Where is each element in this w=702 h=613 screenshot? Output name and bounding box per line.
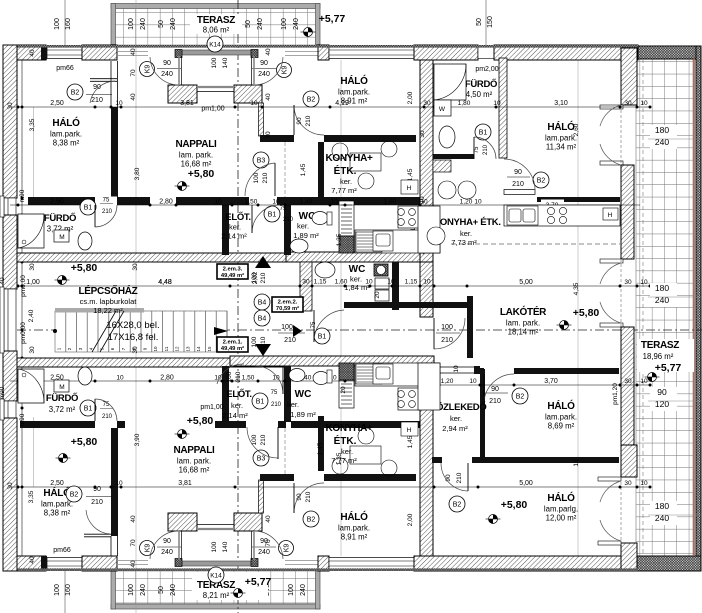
left wall outer sill boxes: [0, 196, 4, 217]
window top W2: [329, 47, 414, 59]
svg-text:70: 70: [130, 69, 137, 77]
svg-text:100: 100: [128, 18, 135, 30]
bottom terrace parapet left: [111, 571, 116, 609]
svg-text:lam.park.: lam.park.: [50, 130, 82, 139]
toilet core wc dark: [374, 264, 388, 276]
top terrace parapet left: [111, 4, 116, 45]
svg-text:240: 240: [170, 18, 177, 30]
svg-text:4,35: 4,35: [573, 282, 580, 295]
svg-text:LÉPCSŐHÁZ: LÉPCSŐHÁZ: [79, 284, 138, 297]
svg-text:210: 210: [284, 337, 296, 344]
svg-text:8,91 m²: 8,91 m²: [341, 97, 368, 106]
door B2 konyha lower: [303, 511, 319, 527]
svg-text:1,89 m²: 1,89 m²: [290, 410, 316, 419]
kitchen zone dashed upper: [284, 142, 286, 197]
door B1 furdo right: [475, 124, 491, 140]
wall halo869 bottom: [432, 457, 442, 463]
pier nappali top-left: [168, 85, 197, 103]
svg-text:240: 240: [655, 513, 669, 523]
svg-text:50: 50: [158, 586, 165, 594]
svg-text:240: 240: [258, 71, 270, 78]
washbasin upper-left: [78, 232, 92, 250]
unit box 2.em.2: [272, 297, 303, 312]
axis vertical x486 top: [485, 0, 487, 47]
door B1 wc core: [314, 328, 330, 344]
svg-text:WC: WC: [295, 389, 312, 400]
svg-text:5,00: 5,00: [519, 279, 533, 286]
door B2 kozlekedo: [449, 496, 465, 512]
svg-text:75: 75: [103, 198, 110, 204]
svg-text:11: 11: [164, 346, 169, 351]
svg-text:m90: m90: [0, 386, 6, 399]
svg-text:1,40: 1,40: [300, 199, 313, 206]
exterior wall bottom seg A: [10, 556, 46, 571]
svg-text:K9: K9: [144, 544, 151, 553]
right terrace tile floor: [636, 58, 693, 556]
svg-text:240: 240: [300, 584, 307, 596]
wall apt-divider vertical core: [420, 262, 433, 317]
svg-text:ker.: ker.: [340, 177, 352, 186]
room label TERASZ top: [190, 14, 242, 34]
svg-text:140: 140: [222, 57, 229, 68]
axis vertical x578: [577, 60, 579, 556]
svg-text:210: 210: [235, 371, 242, 382]
svg-text:TERASZ: TERASZ: [641, 340, 679, 351]
svg-text:B2: B2: [453, 501, 462, 508]
svg-text:30: 30: [624, 480, 632, 487]
svg-text:2,40: 2,40: [28, 309, 35, 322]
svg-text:lam.parlg.: lam.parlg.: [544, 505, 578, 514]
svg-text:210: 210: [271, 402, 282, 408]
svg-text:100: 100: [251, 272, 258, 283]
svg-text:40: 40: [265, 93, 272, 101]
wall halo right lower-left: [111, 428, 118, 536]
svg-text:ELŐT.: ELŐT.: [226, 388, 251, 400]
svg-text:10: 10: [115, 100, 123, 107]
svg-text:240: 240: [140, 584, 147, 596]
svg-text:H: H: [407, 185, 412, 192]
svg-text:75: 75: [103, 402, 110, 408]
wall halo1134/konyha: [537, 197, 620, 202]
door K9 top-right: [277, 63, 292, 78]
axis horizontal y330 dash-dot: [0, 329, 702, 331]
door K14 bottom: [208, 567, 224, 583]
svg-text:pm0,00: pm0,00: [20, 275, 27, 297]
kitchen counter upper apt1: [355, 230, 440, 253]
svg-text:4,50 m²: 4,50 m²: [466, 90, 493, 99]
balcony french door lower: [600, 481, 621, 502]
door jamb bottom-left: [175, 559, 182, 567]
exterior wall top seg E: [494, 45, 638, 60]
dimension line y286: [18, 285, 650, 287]
svg-text:pm0,00: pm0,00: [20, 322, 27, 344]
svg-text:50: 50: [158, 20, 165, 28]
svg-text:B4: B4: [258, 299, 267, 306]
passage elot-kozlekedo: [434, 366, 478, 368]
svg-text:KONYHA+ ÉTK.: KONYHA+ ÉTK.: [433, 217, 500, 228]
svg-text:B2: B2: [516, 393, 525, 400]
svg-text:210: 210: [260, 336, 267, 347]
svg-text:100: 100: [251, 336, 258, 347]
kitchen table upper apt1: [350, 153, 381, 171]
svg-text:lam.park.: lam.park.: [41, 500, 73, 509]
svg-text:2.em.3.: 2.em.3.: [223, 267, 243, 273]
exterior wall bottom corner E: [621, 543, 637, 571]
wall apt-divider vertical upper: [420, 60, 433, 262]
balcony french door upper: [600, 105, 621, 126]
svg-text:TERASZ: TERASZ: [197, 15, 235, 26]
svg-text:K9: K9: [283, 544, 290, 553]
svg-text:100: 100: [441, 324, 453, 331]
svg-text:90: 90: [93, 486, 101, 493]
svg-text:10: 10: [153, 346, 158, 352]
svg-text:2,50: 2,50: [50, 199, 64, 206]
svg-text:30: 30: [624, 378, 632, 385]
svg-text:2,00: 2,00: [407, 91, 414, 104]
svg-text:pm1,00: pm1,00: [200, 404, 223, 411]
exterior wall right seg4: [621, 445, 637, 477]
window top W3: [478, 47, 494, 59]
svg-text:10: 10: [419, 196, 426, 204]
svg-text:13: 13: [185, 346, 190, 352]
svg-text:210: 210: [489, 398, 501, 405]
svg-text:10: 10: [640, 480, 648, 487]
svg-text:3,10: 3,10: [554, 100, 568, 107]
svg-text:2.em.2.: 2.em.2.: [278, 300, 298, 306]
svg-text:210: 210: [260, 434, 267, 445]
svg-text:ker.: ker.: [229, 223, 241, 232]
svg-text:100: 100: [211, 541, 218, 552]
svg-text:240: 240: [161, 71, 173, 78]
svg-text:49,49 m²: 49,49 m²: [221, 272, 244, 279]
door B2 halo bottom-left: [66, 486, 82, 502]
axis vertical x341: [340, 60, 342, 556]
svg-text:8,69 m²: 8,69 m²: [548, 422, 575, 431]
svg-text:3,80: 3,80: [134, 167, 141, 180]
svg-text:ker.: ker.: [297, 222, 309, 231]
svg-text:180: 180: [655, 501, 669, 511]
dining table right apt: [438, 181, 456, 199]
svg-text:10: 10: [453, 365, 460, 373]
svg-text:10: 10: [493, 100, 501, 107]
svg-text:1,35: 1,35: [336, 233, 343, 246]
svg-text:+5,80: +5,80: [188, 168, 215, 180]
shaft dark upper: [339, 236, 354, 253]
pier window lines bottom: [197, 528, 234, 530]
wall halo closet lower-left: [110, 536, 112, 556]
svg-text:210: 210: [260, 272, 267, 283]
svg-text:K9: K9: [281, 66, 288, 75]
svg-text:HÁLÓ: HÁLÓ: [547, 491, 575, 504]
svg-text:+5,80: +5,80: [501, 499, 528, 511]
svg-text:100: 100: [281, 18, 288, 30]
svg-text:160: 160: [65, 584, 72, 596]
svg-text:240: 240: [170, 584, 177, 596]
svg-text:M: M: [59, 384, 64, 391]
svg-text:8,21 m²: 8,21 m²: [203, 591, 230, 600]
svg-text:20: 20: [340, 386, 347, 394]
balcony opening lakoter: [600, 259, 623, 263]
svg-text:90: 90: [657, 387, 667, 397]
svg-text:7,77 m²: 7,77 m²: [331, 456, 357, 465]
svg-text:NAPPALI: NAPPALI: [173, 445, 215, 456]
right terrace waterproof line: [693, 58, 695, 556]
svg-text:14: 14: [196, 346, 201, 352]
svg-text:8,06 m²: 8,06 m²: [203, 26, 230, 35]
svg-text:HÁLÓ: HÁLÓ: [547, 120, 575, 133]
svg-text:ker.: ker.: [287, 400, 299, 409]
pier nappali bottom-right: [234, 513, 262, 531]
svg-text:B1: B1: [256, 398, 265, 405]
washbasin right apt: [439, 126, 455, 148]
svg-text:70: 70: [265, 131, 272, 139]
exterior wall right seg3: [621, 327, 634, 445]
svg-text:3,35: 3,35: [29, 118, 36, 131]
door B1 elot upper: [264, 206, 280, 222]
terrace front sill top: [117, 51, 148, 53]
svg-text:30: 30: [624, 279, 632, 286]
svg-text:30: 30: [29, 263, 36, 271]
svg-text:2,14 m²: 2,14 m²: [221, 232, 247, 241]
svg-text:3,81: 3,81: [180, 100, 194, 107]
svg-text:m90: m90: [19, 189, 26, 202]
exterior wall bottom seg B: [82, 556, 117, 571]
M box lower-left: [54, 380, 69, 392]
stairs treads: [55, 311, 227, 352]
svg-text:1,84 m²: 1,84 m²: [344, 283, 370, 292]
M box upper-left: [54, 230, 69, 242]
svg-text:10: 10: [272, 199, 280, 206]
door jamb top-left: [175, 50, 182, 58]
dimension line y107: [10, 106, 650, 108]
svg-text:100: 100: [226, 371, 233, 382]
svg-text:2,80: 2,80: [160, 375, 174, 382]
wall wc/konyha bottom: [291, 421, 430, 428]
wall wc shaft strip upper: [339, 201, 354, 236]
exterior wall right seg2: [621, 165, 634, 259]
svg-text:pm66: pm66: [53, 547, 71, 554]
left dim chain: [21, 60, 23, 556]
svg-text:10: 10: [250, 100, 258, 107]
svg-text:210: 210: [91, 499, 103, 506]
wall konyha bottom-left segs: [20, 421, 95, 428]
svg-text:B2: B2: [307, 96, 316, 103]
svg-text:240: 240: [655, 295, 669, 305]
svg-text:2,94 m²: 2,94 m²: [442, 424, 468, 433]
svg-text:M: M: [59, 234, 64, 241]
shaft dark lower: [339, 363, 354, 380]
wall furdo bottom right apt: [433, 154, 474, 159]
svg-text:18,14 m²: 18,14 m²: [508, 328, 539, 337]
window bottom W2: [329, 558, 414, 570]
kitchen counter lower apt1: [355, 363, 440, 386]
pier window lines top: [197, 86, 234, 88]
svg-text:+5,77: +5,77: [655, 362, 682, 374]
svg-text:100: 100: [128, 584, 135, 596]
wall service top mid: [176, 197, 249, 205]
svg-text:11,34 m²: 11,34 m²: [546, 143, 577, 152]
svg-text:1,45: 1,45: [317, 442, 324, 455]
svg-text:B4: B4: [258, 315, 267, 322]
door B4 upper arrow: [255, 256, 271, 268]
svg-text:7,77 m²: 7,77 m²: [331, 186, 357, 195]
door gap halo891 upper: [294, 135, 324, 143]
svg-text:210: 210: [456, 472, 463, 483]
room label TERASZ bottom: [192, 572, 268, 600]
axis vertical x136: [135, 0, 137, 613]
svg-text:2,00: 2,00: [407, 513, 414, 526]
svg-text:210: 210: [483, 144, 489, 155]
wall step shaft right apt: [433, 160, 451, 172]
svg-text:30: 30: [624, 100, 632, 107]
dim chain x33: [33, 107, 35, 197]
svg-text:30: 30: [7, 102, 14, 110]
axis vertical x65: [64, 0, 66, 46]
svg-text:240: 240: [293, 18, 300, 30]
svg-text:10: 10: [474, 199, 482, 206]
wall halo869 left: [480, 369, 485, 463]
svg-text:2,50: 2,50: [50, 480, 64, 487]
svg-text:lam. park.: lam. park.: [179, 151, 213, 160]
svg-text:100: 100: [281, 324, 293, 331]
svg-text:100: 100: [211, 57, 218, 68]
shaft core boxes: [375, 278, 389, 289]
svg-text:1,20: 1,20: [460, 199, 473, 206]
svg-text:90: 90: [93, 84, 101, 91]
svg-text:90: 90: [163, 60, 171, 67]
svg-text:90: 90: [445, 474, 452, 482]
wall elot/wc lower: [284, 366, 291, 422]
svg-text:240: 240: [257, 18, 264, 30]
svg-text:B1: B1: [268, 211, 277, 218]
washbasin wc lower: [289, 369, 305, 382]
svg-text:ÉTK.: ÉTK.: [334, 434, 357, 447]
wall service top right: [277, 197, 430, 205]
window K14 top: [182, 50, 251, 55]
door gap halo891 lower: [294, 474, 324, 482]
door B3 lower: [253, 450, 269, 466]
svg-text:+5,80: +5,80: [71, 262, 98, 274]
axis vertical x238 dash-dot: [237, 0, 239, 613]
top terrace parapet top: [111, 4, 320, 9]
svg-text:90: 90: [491, 386, 499, 393]
door B2 konyha upper: [303, 91, 319, 107]
svg-text:90: 90: [163, 538, 171, 545]
svg-text:10: 10: [387, 279, 395, 286]
svg-text:180: 180: [655, 125, 669, 135]
top terrace tile floor: [112, 8, 318, 45]
shower right apt: [434, 64, 466, 100]
svg-text:B1: B1: [479, 129, 488, 136]
dimension line y205: [10, 204, 640, 206]
svg-text:+5,77: +5,77: [245, 576, 272, 588]
svg-text:90: 90: [260, 60, 268, 67]
window left LW3: [4, 401, 16, 418]
svg-text:30: 30: [29, 346, 36, 354]
dimension line y381: [10, 380, 434, 382]
door K9 bottom-left: [140, 541, 155, 556]
terrace front dashed top: [112, 46, 320, 48]
door B2 halo1134: [533, 172, 549, 188]
exterior wall bottom seg D: [414, 556, 621, 571]
svg-text:+5,80: +5,80: [71, 436, 98, 448]
door B1 furdo upper-left: [95, 197, 117, 206]
wall halo right upper-left: [111, 107, 118, 198]
dimension line y385: [420, 384, 650, 386]
top terrace parapet right: [316, 4, 321, 45]
svg-text:40: 40: [0, 277, 6, 285]
svg-text:210: 210: [102, 414, 113, 420]
shower upper-left: [18, 214, 44, 248]
svg-text:FÜRDŐ: FÜRDŐ: [465, 78, 497, 90]
exterior wall top seg D: [414, 45, 478, 60]
wall wc shaft strip lower: [339, 380, 354, 408]
svg-text:1,45: 1,45: [407, 168, 414, 181]
door gap halo869: [484, 368, 514, 375]
exterior wall top seg A: [10, 45, 46, 60]
svg-text:240: 240: [655, 137, 669, 147]
svg-text:30: 30: [419, 130, 426, 138]
svg-text:B2: B2: [70, 491, 79, 498]
toilet wc lower: [313, 372, 329, 385]
window left LW1: [4, 198, 16, 215]
washbasin wc upper: [290, 239, 308, 253]
svg-text:10: 10: [115, 480, 123, 487]
door K9 bottom-right: [279, 541, 294, 556]
svg-text:pm1,20: pm1,20: [612, 383, 619, 405]
exterior wall left lower: [3, 418, 17, 571]
svg-text:lam.park.: lam.park.: [338, 88, 370, 97]
svg-text:lam. park.: lam. park.: [177, 457, 211, 466]
svg-text:18,22 m²: 18,22 m²: [93, 306, 123, 315]
svg-text:160: 160: [65, 18, 72, 30]
svg-text:210: 210: [283, 217, 294, 223]
exterior wall top insulation strip: [10, 45, 638, 48]
kitchen counter right apt: [504, 205, 620, 226]
svg-text:30: 30: [132, 346, 139, 354]
room label TERASZ right: [637, 339, 694, 372]
svg-text:K14: K14: [210, 572, 222, 579]
exterior wall right seg1: [621, 48, 637, 105]
svg-text:FÜRDŐ: FÜRDŐ: [46, 392, 78, 404]
svg-text:pm1,00: pm1,00: [201, 106, 224, 113]
svg-text:pm2,00: pm2,00: [475, 66, 498, 73]
pier nappali bottom-left: [168, 513, 197, 531]
terrace front dashed bottom: [112, 569, 320, 571]
bottom terrace tile floor: [112, 571, 318, 604]
svg-text:1,45: 1,45: [407, 435, 414, 448]
svg-text:210: 210: [305, 115, 312, 126]
wall halo891/konyha lower: [260, 474, 416, 481]
svg-text:8,38 m²: 8,38 m²: [44, 509, 71, 518]
svg-text:12,00 m²: 12,00 m²: [546, 514, 577, 523]
unit box 2.em.1: [217, 337, 248, 352]
shower lower-left: [18, 369, 44, 403]
svg-text:B2: B2: [71, 89, 80, 96]
exterior wall bottom seg C: [318, 556, 329, 571]
svg-text:30: 30: [132, 263, 139, 271]
svg-text:140: 140: [222, 541, 229, 552]
door stair-passage lower arc: [217, 364, 244, 384]
svg-text:15: 15: [207, 346, 212, 352]
svg-text:90: 90: [260, 538, 268, 545]
svg-text:180: 180: [655, 283, 669, 293]
svg-text:ker.: ker.: [341, 447, 353, 456]
wall wc-core right: [392, 262, 399, 310]
exterior wall top seg B: [82, 45, 117, 60]
door B1 furdo lower-left: [80, 400, 96, 416]
svg-text:100: 100: [54, 18, 61, 30]
